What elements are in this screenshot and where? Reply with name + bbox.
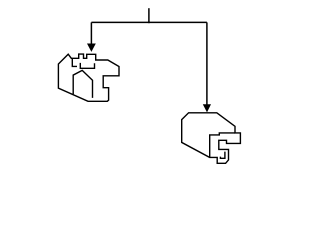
left connector: inner pentagon body edge bbox=[73, 70, 92, 98]
right connector: housing outline with side lock-tab bbox=[182, 113, 241, 164]
left connector: inner L-shaped edge line bbox=[72, 58, 77, 66]
wire: vertical stub from top edge bbox=[148, 8, 150, 22]
arrowhead pointing to right connector bbox=[203, 104, 211, 112]
left connector: inner U-shaped cavity line bbox=[80, 63, 94, 68]
wire: vertical drop to left connector bbox=[90, 22, 92, 44]
right connector: inner lock-tab edge line bbox=[210, 133, 235, 157]
wire: horizontal branch bbox=[91, 21, 206, 23]
wire: vertical drop to right connector bbox=[206, 22, 208, 104]
arrowhead pointing to left connector bbox=[87, 44, 96, 52]
right connector: inner J-shaped foot edge bbox=[220, 152, 225, 159]
junction: stub meets horizontal wire bbox=[148, 21, 150, 23]
left connector: housing outline with castellated top and stepped right side bbox=[58, 54, 119, 101]
